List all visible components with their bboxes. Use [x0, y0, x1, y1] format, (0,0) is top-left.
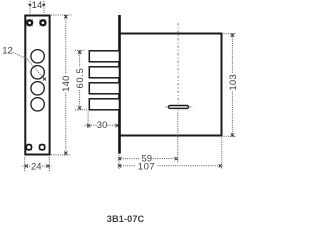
- screw hole top-left: [26, 19, 33, 26]
- key slot: [169, 105, 189, 108]
- dimension 103 arrows: [231, 34, 234, 137]
- bolt hole circle 2: [31, 66, 44, 79]
- label 12 leader line: [13, 52, 44, 79]
- dimension 107 right extension: [221, 138, 223, 169]
- bolt hole circle 3: [31, 82, 44, 95]
- key cylinder centerline vertical: [177, 23, 179, 114]
- dimension 60.5 line: [79, 50, 81, 109]
- dimension 103 line: [231, 34, 233, 136]
- screw hole top-right: [39, 19, 46, 26]
- svg-text:3B1-07C: 3B1-07C: [107, 214, 145, 224]
- dimension 59 arrows: [118, 157, 178, 160]
- dimension 60.5 extension bottom: [75, 109, 88, 111]
- screw hole bottom-left: [26, 144, 32, 150]
- dimension 24 line: [23, 165, 52, 167]
- dimension 59 right extension: [177, 113, 179, 164]
- dimension 140 extension top: [51, 14, 72, 16]
- bolt hole circle 1: [31, 50, 44, 63]
- dimension 60.5 arrows: [78, 51, 81, 110]
- dimension 140 extension bottom: [51, 154, 71, 156]
- faceplate front view outline: [25, 16, 49, 155]
- svg-text:14: 14: [32, 0, 43, 11]
- bolt 4 side view: [89, 99, 119, 110]
- dimension 59 left extension: [118, 155, 120, 169]
- dimension 59 line: [121, 158, 177, 160]
- svg-text:107: 107: [138, 161, 156, 172]
- svg-text:30: 30: [97, 120, 108, 131]
- dimension 107 line: [121, 165, 221, 167]
- dimension 60.5 extension top: [75, 49, 85, 51]
- dimension 30 extension line: [87, 112, 89, 130]
- bolt 3 side view: [89, 83, 119, 94]
- dimension 14 line: [28, 3, 47, 5]
- dimension 24 extension lines: [25, 157, 50, 172]
- dimension 140 line: [65, 15, 67, 155]
- bolt 2 side view: [89, 67, 119, 78]
- faceplate side view bar: [118, 15, 121, 154]
- dimension 30 line: [85, 124, 119, 126]
- dimension 14 arrows: [29, 4, 45, 6]
- svg-text:12: 12: [2, 46, 13, 57]
- dimension 24 arrows: [25, 164, 50, 167]
- dimension 14 extension lines: [30, 1, 44, 14]
- dimension 103 extension top: [224, 33, 237, 35]
- dimension 107 arrows: [118, 164, 222, 167]
- dimension 30 arrows: [87, 124, 119, 127]
- svg-text:140: 140: [61, 75, 72, 91]
- dimension 140 arrows: [64, 15, 67, 155]
- dimension 103 extension bottom: [224, 135, 237, 137]
- svg-text:60.5: 60.5: [75, 68, 86, 89]
- bolt hole circle 4: [31, 98, 44, 111]
- bolt 1 side view: [89, 51, 119, 62]
- screw hole bottom-right: [39, 144, 45, 150]
- label 12 leader tick: [43, 78, 46, 81]
- key cylinder centerline horizontal: [166, 106, 192, 108]
- lock case body side view: [120, 34, 222, 136]
- svg-text:103: 103: [228, 74, 239, 91]
- svg-text:24: 24: [31, 161, 42, 172]
